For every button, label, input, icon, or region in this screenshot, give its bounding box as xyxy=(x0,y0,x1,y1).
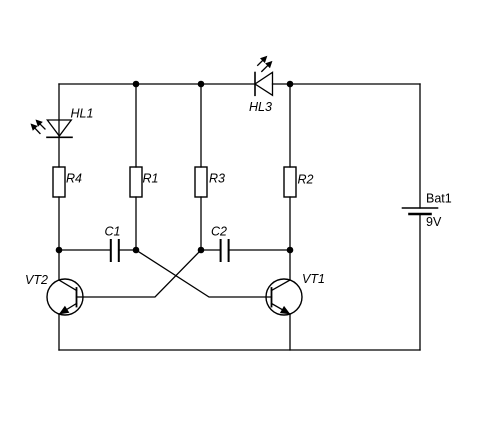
node C1 right junction xyxy=(133,247,140,254)
wire column A lower (VT2 emitter) xyxy=(58,314,60,350)
resistor R3 xyxy=(195,167,207,197)
wire top bus left segment xyxy=(59,83,255,85)
node VT1 collector junction xyxy=(287,247,294,254)
wire column C lower (R3 bottom to node) xyxy=(200,197,202,250)
wire C1 left lead xyxy=(59,249,110,251)
LED HL1 xyxy=(47,120,72,137)
resistor R2 xyxy=(284,167,296,197)
LED HL1 emission arrows xyxy=(32,121,46,134)
node top R3 junction xyxy=(198,81,205,88)
LED HL3 emission arrows xyxy=(258,57,272,72)
wire column D upper (R2 top) xyxy=(289,84,291,167)
svg-text:HL3: HL3 xyxy=(249,100,272,114)
capacitor C1 xyxy=(111,240,119,261)
node top R1 junction xyxy=(133,81,140,88)
node C2 left junction xyxy=(198,247,205,254)
wire C2 right lead xyxy=(230,249,291,251)
transistor VT1 xyxy=(266,279,302,315)
wire C2 left lead xyxy=(201,249,220,251)
wire right battery column upper xyxy=(419,84,421,208)
node top R2 junction xyxy=(287,81,294,88)
svg-text:R4: R4 xyxy=(66,172,82,186)
wire column C upper (R3 top) xyxy=(200,84,202,167)
svg-text:VT2: VT2 xyxy=(25,273,48,287)
wire column D middle (R2 to VT1 collector) xyxy=(289,197,291,280)
wire cross diagonal C1 to VT1 base xyxy=(136,250,272,297)
svg-text:C1: C1 xyxy=(105,225,121,239)
svg-text:R1: R1 xyxy=(143,172,159,186)
wire column B upper (R1 top) xyxy=(135,84,137,167)
resistor R1 xyxy=(130,167,142,197)
wire right battery column lower xyxy=(419,214,421,350)
wire column A upper (HL1 anode) xyxy=(58,84,60,167)
svg-text:R2: R2 xyxy=(298,173,314,187)
svg-text:C2: C2 xyxy=(211,225,227,239)
battery Bat1 xyxy=(403,208,438,214)
wire C1 right lead xyxy=(120,249,137,251)
wire column B lower (R1 bottom to node) xyxy=(135,197,137,250)
wire column A middle (R4 to VT2 collector) xyxy=(58,197,60,280)
svg-text:R3: R3 xyxy=(209,172,225,186)
capacitor C2 xyxy=(221,240,229,261)
svg-text:VT1: VT1 xyxy=(302,272,325,286)
svg-text:Bat1: Bat1 xyxy=(426,192,452,206)
wire top bus right segment xyxy=(273,83,421,85)
LED HL3 xyxy=(255,72,273,95)
svg-text:9V: 9V xyxy=(426,215,442,229)
svg-text:HL1: HL1 xyxy=(71,107,94,121)
wire column D lower (VT1 emitter) xyxy=(289,314,291,350)
wire cross diagonal C2 to VT2 base xyxy=(77,250,202,297)
node VT2 collector junction xyxy=(56,247,63,254)
resistor R4 xyxy=(53,167,65,197)
transistor VT2 xyxy=(47,279,83,315)
wire bottom bus xyxy=(59,349,420,351)
